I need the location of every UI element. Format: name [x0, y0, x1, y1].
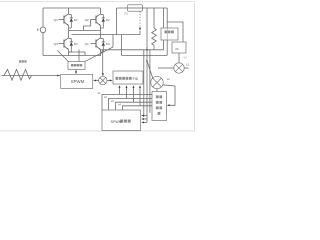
wire: mcu in 2: [143, 118, 148, 120]
transistor Q1: [59, 14, 69, 26]
wire: output B horizontal: [72, 34, 141, 36]
wire: right leg top stub: [100, 8, 102, 14]
svg-text:PL: PL: [176, 47, 180, 51]
wire: pid pin 1: [119, 85, 121, 94]
wire: load vertical right: [163, 8, 165, 50]
summing junction: [99, 76, 107, 84]
arrow into SPWM left: [57, 75, 60, 77]
wire: regulator through line: [166, 28, 168, 40]
wire: lower return: [122, 54, 168, 56]
wire: source vertical upper: [42, 8, 44, 27]
SPWM box: [61, 74, 93, 88]
arrow MCU 3: [141, 121, 144, 123]
wire: lamp L2 to detector: [156, 89, 158, 92]
svg-text:Q3: Q3: [54, 42, 58, 46]
svg-text:k3: k3: [111, 100, 114, 103]
wire: lamp L1 left lead: [158, 67, 174, 69]
wire: return link vertical: [121, 35, 123, 56]
label driver: [71, 64, 74, 67]
wire: gate feed diagonal: [85, 47, 113, 61]
wire: regulator vertical lower: [166, 40, 168, 55]
arrow MCU 1: [141, 115, 144, 117]
wire: pid pin 4: [139, 85, 141, 106]
label detector: [156, 95, 162, 114]
label regulator: [164, 31, 167, 34]
wire: left leg bottom: [68, 50, 70, 56]
svg-text:PID: PID: [133, 77, 139, 81]
wire: right leg mid: [100, 26, 102, 38]
diode D1: [69, 15, 73, 29]
svg-text:Q1: Q1: [54, 18, 58, 22]
transistor Q2: [91, 14, 101, 26]
detector box: [152, 92, 167, 121]
svg-text:D2: D2: [106, 18, 110, 22]
svg-text:L2: L2: [167, 77, 170, 81]
wire: gate feed drop: [112, 35, 114, 47]
wire: output A horizontal: [69, 30, 101, 32]
label PID: [115, 77, 118, 80]
fuse FU: [127, 5, 142, 11]
meter PL box: [172, 42, 186, 53]
junction dot load: [146, 49, 148, 51]
wire: right leg bottom: [100, 50, 102, 56]
svg-text:k2: k2: [104, 96, 107, 99]
wire: regulator vertical upper: [166, 8, 168, 28]
source E circle: [40, 27, 46, 33]
wire: bus horizontal 3: [116, 102, 153, 110]
wire: bottom rail: [43, 55, 101, 57]
svg-text:FU: FU: [125, 12, 129, 16]
transistor Q4: [91, 38, 101, 50]
arrow into summing top: [102, 73, 104, 76]
lamp L2: [151, 76, 163, 88]
wire: bus horizontal 1: [102, 95, 152, 111]
wire: bus horizontal 4: [123, 106, 153, 110]
wire: gate lead mid: [78, 50, 80, 62]
wire: sense bus 2: [146, 50, 148, 123]
PID box: [113, 71, 143, 84]
triangle wave source: [2, 69, 60, 80]
wire: left leg mid: [68, 26, 70, 38]
wire: load line top: [117, 7, 168, 9]
wire: sense bus 1: [143, 50, 145, 117]
svg-text:E: E: [37, 28, 40, 32]
svg-text:k1: k1: [98, 92, 101, 95]
transistor Q3: [59, 38, 69, 50]
arrow into SPWM right: [93, 80, 96, 82]
wire: PL to lamp L1: [178, 53, 180, 63]
diode D2: [101, 15, 106, 29]
svg-text:D3: D3: [74, 42, 78, 46]
wire: lamp L1 right lead: [184, 67, 188, 69]
arrow driver to SPWM: [75, 69, 77, 74]
arrow MCU 2: [141, 118, 144, 120]
wire: left leg top stub: [68, 8, 70, 14]
diode D4: [101, 39, 106, 53]
wire: sense bus 3: [149, 50, 151, 113]
wire: mcu in 3: [143, 121, 148, 123]
wire: pid pin 2: [126, 85, 128, 98]
svg-text:D1: D1: [74, 18, 78, 22]
arrow into PID left: [110, 80, 113, 82]
wire: feedback drop: [102, 50, 104, 74]
driver box: [68, 61, 85, 69]
wire: gate lead left: [58, 51, 69, 62]
lamp L1: [174, 63, 184, 73]
wire: pid pin 3: [133, 85, 135, 102]
wire: bus horizontal 2: [109, 99, 153, 111]
regulator box: [161, 28, 178, 40]
diode D3: [69, 39, 73, 53]
arrow into detector right: [167, 104, 170, 106]
wire: gate stair Q2: [84, 20, 91, 31]
wire: source vertical lower: [42, 33, 44, 56]
wire: bottom step: [69, 52, 85, 56]
junction dot sense: [146, 60, 148, 62]
svg-text:~10: ~10: [183, 56, 188, 60]
svg-text:SPWM: SPWM: [71, 79, 85, 84]
resistor R zigzag: [152, 8, 157, 50]
wire: load return: [101, 49, 164, 51]
svg-text:Q4: Q4: [85, 42, 89, 46]
svg-text:k4: k4: [118, 104, 121, 107]
wire: output A riser: [116, 8, 118, 35]
svg-text:L1: L1: [186, 62, 190, 66]
wire: summing to SPWM: [95, 80, 98, 82]
wire: load vertical 1: [146, 8, 148, 50]
wire: branch to PL: [167, 22, 183, 42]
label triangle wave: [19, 60, 21, 62]
wire: mcu in 1: [143, 115, 148, 117]
wire: lamp L2 tap to detector right: [163, 85, 175, 106]
rheostat wiper dashed: [139, 11, 141, 34]
wire: DC top rail: [43, 7, 101, 9]
MCU box: [102, 110, 141, 131]
svg-text:D4: D4: [106, 42, 110, 46]
wire: summing to PID: [107, 80, 112, 82]
svg-text:Q2: Q2: [85, 18, 89, 22]
wire: diagonal to lamp L2: [147, 61, 153, 78]
